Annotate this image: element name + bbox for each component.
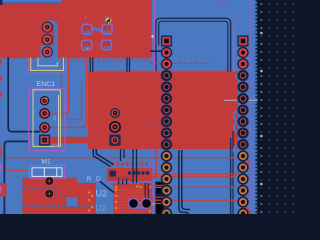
violet line right strip lower xyxy=(253,168,255,205)
edge cuts dash column xyxy=(255,0,257,214)
pad middle column 3 square xyxy=(109,135,120,146)
magenta segment y128 xyxy=(150,122,159,124)
grid dots xyxy=(257,0,300,214)
red band violet bottom border xyxy=(96,181,153,182)
dark notch top-left corner xyxy=(0,0,2,5)
pad P1 top-left column xyxy=(42,22,53,33)
trace red Z path xyxy=(62,58,82,120)
smd pad D xyxy=(102,40,112,50)
trace red horizontal y170 short xyxy=(5,170,29,172)
pad JR-16 xyxy=(237,208,248,219)
connector right column pads xyxy=(237,35,249,219)
svg-text:J6: J6 xyxy=(53,145,59,151)
pad JR-10 xyxy=(237,139,249,151)
trace dark diagonals below zone xyxy=(93,149,110,167)
hatched zone boundary y61 xyxy=(64,60,152,62)
pad JL-4 xyxy=(161,70,173,82)
dark vertical pair continuation lower right xyxy=(232,131,234,214)
courtyard ticks above smd pads xyxy=(85,16,87,19)
via dots right block xyxy=(115,185,152,212)
violet line bottom left connector xyxy=(152,148,154,214)
trace dark stub to pad row2 xyxy=(150,50,162,52)
violet inner courtyard line xyxy=(65,100,67,112)
via gold top middle xyxy=(105,17,111,23)
trace dark vertical right reappearing xyxy=(230,138,232,214)
fab inner light line xyxy=(58,95,60,146)
ENC1 lower footprint courtyard xyxy=(29,88,65,150)
connector red band above U2 xyxy=(107,168,153,182)
pad JR-3 xyxy=(237,58,248,69)
left edge red hatch dashes xyxy=(0,59,2,97)
pad JL-15 xyxy=(161,196,172,207)
svg-text:U2: U2 xyxy=(96,203,107,213)
smd pad A xyxy=(82,24,92,34)
pad JR-6 xyxy=(237,93,249,105)
pad JL-11 xyxy=(161,150,172,161)
svg-text:J6: J6 xyxy=(52,116,58,121)
svg-text:R D: R D xyxy=(87,176,103,183)
svg-text:M1: M1 xyxy=(42,158,51,165)
pad ENC1-1 xyxy=(40,96,49,105)
trace red horizontal y176.6 xyxy=(152,171,239,176)
pad JR-11 xyxy=(237,150,248,161)
M1 fab white box xyxy=(32,168,62,177)
board background B.Cu blue xyxy=(0,0,257,214)
pad JR-14 xyxy=(237,185,248,196)
blue trace pad A to pad B xyxy=(91,28,104,32)
thick red trace from M1 pad4 xyxy=(49,137,91,144)
top blue band lower edge xyxy=(2,2,62,5)
pad JR-15 xyxy=(237,196,248,207)
pad JL-1 xyxy=(161,35,172,46)
measure line gray xyxy=(224,99,258,101)
left edge red strip xyxy=(0,183,7,197)
trace red horizontal y200 to pad xyxy=(152,200,243,203)
pad ENC1-4 square xyxy=(39,135,50,146)
pad JL-7 xyxy=(161,104,173,116)
pad middle column 1 xyxy=(110,108,120,118)
pad JR-13 xyxy=(237,173,248,184)
pad JR-9 xyxy=(237,127,249,139)
bottom-left pour hatched left edge xyxy=(22,179,24,214)
magenta courtyard vertical right of connector xyxy=(233,22,235,72)
red bus lines across right block xyxy=(114,190,152,211)
trace dark navy left column xyxy=(8,57,40,132)
magenta mark left edge 2 xyxy=(0,186,2,193)
blue dashed diagonal xyxy=(53,189,68,199)
pad JR-5 xyxy=(237,81,249,93)
hatched zone boundary y63.5 right xyxy=(150,62,212,64)
mount hole pad M1-b xyxy=(46,190,53,197)
trace dark pair top (right) xyxy=(126,58,128,72)
pad JR-7 xyxy=(237,104,249,116)
trace red horizontal y187 xyxy=(152,186,237,188)
dark strip black slot upper xyxy=(156,183,163,194)
svg-text:RIVER: RIVER xyxy=(109,176,132,183)
trace dark pair top (left) xyxy=(89,58,91,72)
zone F.Cu middle red pour xyxy=(88,72,238,149)
zone F.Cu right red block bottom xyxy=(113,183,153,214)
pad JL-6 xyxy=(161,93,173,105)
svg-text:U2: U2 xyxy=(96,189,108,199)
footprint big dark corner bottom left xyxy=(4,141,28,214)
pad JL-5 xyxy=(161,81,173,93)
pad JR-8 xyxy=(237,116,249,128)
top blue band notch in red zone xyxy=(2,0,62,3)
hatched zone boundary y58 xyxy=(2,57,152,59)
svg-text:01: 01 xyxy=(218,0,226,7)
trace dark diagonal across U2 gap xyxy=(100,181,114,193)
red band inner dark holes xyxy=(110,171,150,177)
trace dark short verticals band to block xyxy=(118,178,120,185)
middle red pour top boundary line xyxy=(88,70,238,73)
dark trace via to pad B xyxy=(103,23,108,28)
zone F.Cu top-left red pour xyxy=(0,0,152,58)
magenta dotted board line right strip xyxy=(250,0,252,214)
trace red horizontal y174 xyxy=(152,169,241,174)
big footprint dark outline rounded rect (outer) xyxy=(156,18,231,72)
blue arcs right column xyxy=(234,110,239,122)
zone F.Cu bottom-left red pour xyxy=(23,179,77,215)
via dots left red rect edge xyxy=(88,191,94,212)
trace red pad3 elbow up xyxy=(48,58,87,128)
ENC1 lower footprint fab outline xyxy=(33,90,60,147)
pad JR-2 xyxy=(237,47,248,58)
pad P3 xyxy=(42,46,53,57)
pad JL-13 xyxy=(161,173,172,184)
svg-text:ENC1: ENC1 xyxy=(37,81,56,88)
zone F.Cu bottom-left pour right part xyxy=(76,183,96,214)
trace red vertical into bottom block xyxy=(153,150,156,178)
pad middle column 2 xyxy=(109,121,121,133)
bottom-left pour hatched top edge xyxy=(23,177,77,179)
SMD pad row above red band xyxy=(112,162,148,166)
pad JL-16 xyxy=(161,208,172,219)
pad column top-left: blue connect strip xyxy=(41,22,59,62)
blue notch in zone A xyxy=(67,197,78,207)
trace red diagonal bottom right exit xyxy=(244,204,252,215)
smd pad C xyxy=(82,40,92,50)
pad JL-9 xyxy=(161,127,173,139)
bottom connector dark body strip xyxy=(155,182,164,215)
pad P2 xyxy=(42,34,53,45)
trace red bulge pad156-pad167 xyxy=(245,158,249,167)
magenta courtyard vertical line x155 top xyxy=(154,0,156,73)
pad JL-12 xyxy=(161,162,172,173)
big footprint dark outline rounded rect (inner) xyxy=(159,21,228,72)
magenta mark left edge 1 xyxy=(0,164,2,172)
page background outside board xyxy=(257,0,300,214)
trace red pad2 elbow up xyxy=(49,58,69,114)
red mark left edge xyxy=(0,146,2,158)
via dots in left zone area xyxy=(140,186,155,206)
mount hole pad M1-a xyxy=(46,177,53,184)
pad ENC1-2 xyxy=(39,108,50,119)
pad JL-8 xyxy=(161,116,173,128)
pad JR-4 xyxy=(237,70,249,82)
blue dashed B.Cu trace across bottom-left zone xyxy=(23,205,97,208)
pad JL-2 xyxy=(161,47,172,58)
via white top middle xyxy=(151,35,153,37)
trace dark pair bottom right with elbow xyxy=(179,150,189,214)
pad JL-10 xyxy=(161,139,173,151)
blue slot in notch xyxy=(44,58,49,63)
M1 courtyard xyxy=(29,165,64,178)
connector left column pads xyxy=(161,35,173,219)
pad JR-12 xyxy=(237,162,248,173)
pad JL-3 xyxy=(161,58,172,69)
dark strip black slot lower xyxy=(156,196,163,214)
ENC1 upper footprint fab outline xyxy=(31,58,64,71)
pad JR-1 xyxy=(237,35,248,46)
ENC1 upper footprint courtyard xyxy=(28,58,65,74)
smd pad B xyxy=(102,24,112,34)
grid origin bright dots xyxy=(260,32,263,186)
pad JL-14 xyxy=(161,185,172,196)
trace red stubs bottom connector xyxy=(150,184,165,186)
trace dark short verticals into band xyxy=(132,149,134,183)
blue wing stubs pad row75 right column xyxy=(235,73,240,78)
blue dashed horizontal y188 xyxy=(23,187,53,189)
black pads in right block connected by blue trace xyxy=(128,183,151,209)
pad ENC1-3 xyxy=(39,122,50,133)
trace red horizontal y157 to pad R1 xyxy=(5,157,239,158)
grid bright column xyxy=(260,3,262,213)
